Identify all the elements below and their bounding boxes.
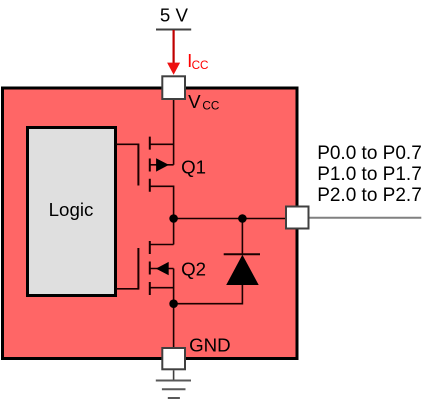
svg-text:P1.0 to P1.7: P1.0 to P1.7 — [317, 164, 422, 185]
svg-text:Q2: Q2 — [181, 259, 206, 280]
svg-text:CC: CC — [192, 59, 209, 72]
svg-text:Q1: Q1 — [181, 157, 206, 178]
svg-text:5 V: 5 V — [160, 4, 189, 25]
svg-text:CC: CC — [202, 100, 219, 113]
svg-text:GND: GND — [189, 334, 231, 355]
svg-text:V: V — [188, 91, 201, 112]
svg-text:P2.0 to P2.7: P2.0 to P2.7 — [317, 185, 422, 206]
svg-text:Logic: Logic — [49, 199, 94, 220]
svg-text:P0.0 to P0.7: P0.0 to P0.7 — [317, 143, 422, 164]
